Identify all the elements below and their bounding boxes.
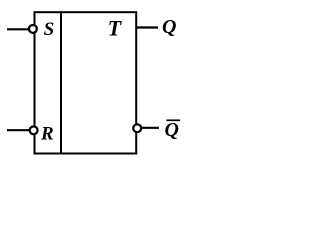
svg-text:R: R: [40, 124, 54, 145]
svg-text:S: S: [44, 19, 55, 40]
svg-text:T: T: [108, 15, 123, 40]
svg-text:Q: Q: [165, 119, 179, 141]
svg-text:Q: Q: [162, 16, 176, 38]
